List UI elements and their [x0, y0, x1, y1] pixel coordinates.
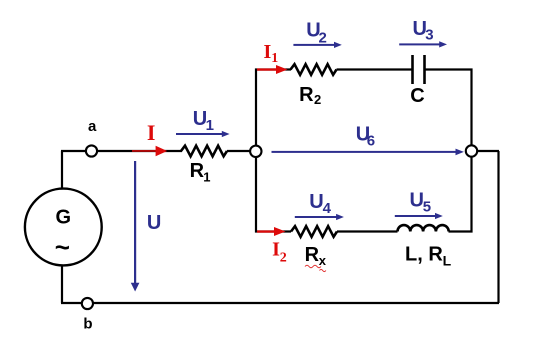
svg-text:R: R [305, 244, 320, 266]
svg-text:b: b [83, 316, 92, 333]
resistor R1 [181, 146, 227, 157]
svg-text:I: I [147, 120, 156, 145]
svg-text:1: 1 [206, 117, 214, 134]
wire top branch R2 to capacitor [337, 68, 412, 70]
inductor L [398, 225, 449, 231]
svg-text:5: 5 [423, 199, 431, 216]
svg-text:1: 1 [203, 170, 210, 185]
voltage arrow U4 [295, 214, 344, 220]
svg-text:a: a [88, 118, 97, 135]
svg-text:U: U [410, 190, 424, 212]
wire capacitor to right node [426, 70, 472, 146]
svg-text:L, R: L, R [405, 244, 443, 266]
svg-text:C: C [410, 85, 424, 107]
terminal a circle [86, 145, 97, 156]
svg-text:U: U [147, 212, 161, 234]
current arrow I1 [257, 65, 288, 74]
voltage arrow U3 [399, 41, 447, 47]
svg-text:G: G [56, 206, 72, 228]
voltage arrow U1 [176, 131, 230, 137]
voltage arrow U (vertical, a to b) [131, 161, 140, 292]
svg-text:6: 6 [367, 133, 375, 150]
generator G circle [25, 189, 102, 266]
node left (junction) [250, 146, 261, 157]
resistor Rx [291, 226, 337, 237]
capacitor C plates [413, 55, 425, 84]
svg-text:x: x [319, 253, 327, 268]
spellcheck squiggle under Rx [305, 265, 321, 268]
current arrow I [132, 146, 167, 156]
voltage arrow U6 (middle branch) [272, 149, 464, 156]
wire R1 right lead to node [227, 150, 252, 152]
svg-text:~: ~ [55, 232, 70, 262]
svg-text:2: 2 [319, 30, 327, 47]
svg-text:4: 4 [323, 200, 332, 217]
wire bottom branch down from node [256, 157, 291, 232]
svg-text:1: 1 [271, 51, 278, 66]
voltage arrow U2 [293, 42, 341, 48]
voltage arrow U5 [395, 213, 443, 219]
wire right node stub to outer [477, 150, 499, 152]
node right (junction) [466, 145, 477, 156]
wire right outer vertical [497, 151, 499, 303]
svg-text:L: L [443, 253, 452, 269]
svg-text:R: R [299, 84, 314, 106]
wire bottom horizontal (b to right outer) [61, 302, 499, 304]
wire top main horizontal (a to R1) [61, 150, 182, 152]
svg-text:2: 2 [314, 92, 321, 107]
svg-text:2: 2 [280, 250, 287, 265]
svg-text:3: 3 [425, 27, 433, 44]
wire Rx to inductor [337, 230, 398, 232]
wire left vertical (a to b via generator) [61, 151, 63, 303]
svg-text:U: U [309, 191, 323, 213]
wire top branch up from node [256, 70, 291, 147]
svg-text:I: I [264, 41, 272, 63]
wire inductor to right node [449, 157, 472, 232]
current arrow I2 [257, 227, 286, 236]
resistor R2 [291, 64, 337, 75]
terminal b circle [82, 298, 93, 309]
